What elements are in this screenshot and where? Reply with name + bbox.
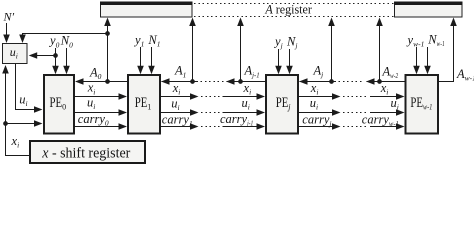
svg-text:yw-1: yw-1: [406, 33, 425, 49]
wire Aw-1 from PE_w-1 to register: [438, 18, 457, 82]
svg-text:xi: xi: [243, 81, 252, 97]
svg-text:xi: xi: [310, 81, 319, 97]
svg-text:xi: xi: [11, 134, 20, 150]
wire u_i into PE_w-1: [370, 109, 405, 116]
node junction A0 on A line: [105, 79, 110, 84]
svg-text:ui: ui: [310, 96, 318, 112]
wire feedback register to u_i box: [19, 34, 107, 44]
u_i box U1: [3, 44, 28, 64]
PE_w-1 box: [406, 75, 439, 134]
node junction Aj on A line: [329, 79, 334, 84]
svg-text:xi: xi: [380, 81, 389, 97]
wire x_i into PE_j: [223, 93, 266, 100]
wire riser Aj-1 to register: [237, 18, 244, 82]
x shift register box: [30, 141, 145, 163]
node junction A0-feedback: [105, 31, 110, 36]
svg-text:ui: ui: [242, 96, 250, 112]
svg-text:xi: xi: [87, 81, 96, 97]
wire carry_j-1 into PE_j: [223, 123, 266, 130]
wire x_i out of PE_1: [160, 93, 221, 100]
wire u_i box output to PE_0: [16, 64, 43, 113]
svg-text:A1: A1: [174, 64, 186, 80]
node junction A1 on A line: [190, 79, 195, 84]
A register left segment: [100, 2, 193, 18]
PE_j box: [266, 75, 298, 134]
svg-text:Aw-2: Aw-2: [382, 65, 399, 81]
wire N_1 into PE top: [148, 47, 155, 74]
wire y_j into PE top: [275, 49, 282, 74]
svg-text:carryw-1: carryw-1: [362, 112, 399, 128]
wire u_i PE_0 to PE_1: [74, 109, 127, 116]
wire x bus from shift register: [2, 65, 30, 156]
svg-text:Nw-1: Nw-1: [427, 33, 444, 49]
A register label: [264, 2, 312, 16]
wire N_j into PE top: [286, 49, 293, 74]
svg-text:Nj: Nj: [286, 35, 297, 51]
A register right segment: [394, 2, 463, 18]
svg-text:y0: y0: [48, 34, 60, 50]
svg-text:N0: N0: [60, 34, 73, 50]
wire x_i out of PE_j: [298, 93, 367, 100]
PE_1 box: [128, 75, 160, 134]
svg-text:A0: A0: [89, 66, 102, 82]
svg-text:ui: ui: [171, 96, 179, 112]
svg-text:carry0: carry0: [78, 112, 109, 128]
wire Aj-1 line from PE_j: [226, 78, 266, 85]
wire A1 line into PE_1: [161, 78, 198, 85]
svg-text:x - shift register: x - shift register: [41, 146, 130, 162]
svg-text:N1: N1: [147, 33, 160, 49]
wire carry_j out of PE_j: [298, 123, 367, 130]
svg-text:y1: y1: [133, 33, 144, 49]
wire x_i branch into PE_0: [6, 120, 43, 127]
svg-text:carryj: carryj: [302, 112, 331, 128]
wire Aj dotted continuation: [339, 81, 364, 83]
PE_0 box: [44, 75, 74, 134]
wire y0 branch into u_i box: [29, 52, 56, 59]
wire A1 dotted continuation: [201, 81, 225, 83]
svg-text:ui: ui: [87, 96, 95, 112]
wire N-prime input: [3, 23, 10, 43]
wire u_i into PE_j: [223, 109, 266, 116]
wire y_1 into PE top: [137, 47, 144, 74]
svg-text:carryj-1: carryj-1: [220, 112, 253, 128]
node junction Aw-2 on A line: [377, 79, 382, 84]
wire riser Aj to register: [328, 18, 335, 82]
wire y_w-1 into PE top: [413, 47, 420, 74]
wire riser Aw-2 to register: [376, 18, 383, 82]
svg-text:A register: A register: [264, 2, 312, 16]
wire carry_w-1 into PE_w-1: [370, 123, 405, 130]
svg-text:carry1: carry1: [162, 112, 193, 128]
wire carry_1 out of PE_1: [160, 123, 221, 130]
svg-text:yj: yj: [273, 35, 283, 51]
wire Aw-2 line from PE_w-1: [366, 78, 406, 85]
wire y_0 into PE top: [52, 48, 59, 74]
wire A0 line PE_1 to PE_0: [75, 78, 128, 85]
svg-text:Aw-1: Aw-1: [456, 67, 474, 83]
wire x_i PE_0 to PE_1: [74, 93, 127, 100]
wire riser A0 to register: [104, 18, 111, 82]
wire N_w-1 into PE top: [424, 47, 431, 74]
wire u_i out of PE_j: [298, 109, 367, 116]
node junction y0 to u_i box: [53, 53, 58, 58]
node junction Aj-1 on A line: [238, 79, 243, 84]
svg-text:Aj-1: Aj-1: [244, 64, 260, 80]
A register middle dotted section: [194, 4, 394, 17]
wire N_0 into PE top: [63, 48, 70, 74]
wire carry_0 PE_0 to PE_1: [74, 123, 127, 130]
node junction x bus branch: [3, 121, 8, 126]
wire riser A1 to register: [189, 18, 196, 82]
svg-text:xi: xi: [172, 81, 181, 97]
wire Aj line into PE_j: [299, 78, 336, 85]
svg-text:Aj: Aj: [313, 64, 324, 80]
svg-text:ui: ui: [19, 93, 27, 109]
wire u_i out of PE_1: [160, 109, 221, 116]
svg-text:N′: N′: [3, 10, 15, 24]
wire x_i into PE_w-1: [370, 93, 405, 100]
